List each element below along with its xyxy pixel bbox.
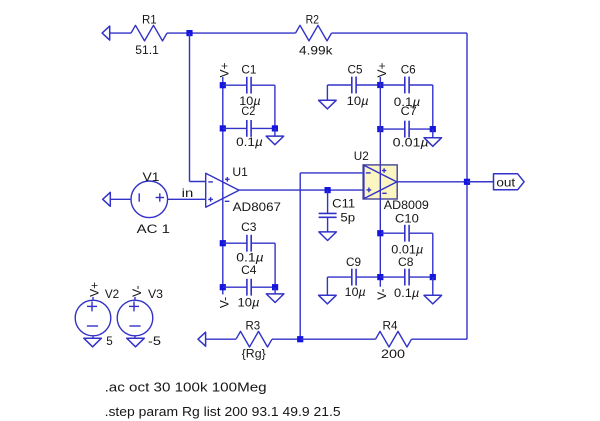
junction C2 left (220, 125, 226, 131)
svg-text:in: in (182, 186, 194, 200)
svg-text:C6: C6 (401, 63, 416, 77)
wire R4 right lead (412, 338, 468, 340)
svg-text:C8: C8 (398, 255, 414, 269)
flag V- above V3 (130, 286, 144, 297)
svg-text:C4: C4 (241, 263, 257, 277)
port flag at V1 left (103, 192, 111, 206)
capacitor C5 (327, 63, 380, 109)
capacitor C9 (327, 255, 380, 299)
junction C8 right (430, 274, 436, 280)
svg-text:C2: C2 (241, 104, 255, 118)
svg-text:R4: R4 (383, 318, 398, 332)
wire V1 to U1 + input (168, 198, 206, 200)
wire C6 right down (432, 85, 434, 129)
svg-text:V-: V- (130, 286, 144, 297)
wire U1 V- rail (bottom) (222, 190, 224, 294)
svg-text:R2: R2 (306, 12, 320, 26)
svg-text:V-: V- (218, 297, 232, 308)
op-amp U1 AD8067 (206, 165, 282, 214)
junction C4 right (272, 284, 278, 290)
svg-text:U2: U2 (354, 149, 369, 163)
svg-text:200: 200 (381, 347, 405, 361)
ground below V3 (127, 338, 145, 347)
voltage source V3 (117, 287, 163, 348)
flag V- below V- rail (375, 289, 389, 300)
wire U2 - input left (300, 172, 363, 174)
svg-text:5: 5 (106, 334, 113, 348)
net label in (182, 186, 194, 200)
svg-text:V2: V2 (105, 287, 120, 301)
svg-text:10µ: 10µ (238, 295, 260, 309)
capacitor C6 (380, 63, 433, 109)
directive .ac (105, 380, 267, 395)
ground below C5 (319, 100, 337, 109)
svg-text:V+: V+ (88, 282, 102, 297)
wire port to V1 (110, 198, 131, 200)
resistor R4 (376, 318, 412, 361)
svg-text:R1: R1 (142, 12, 157, 26)
wire node to R4 (300, 338, 375, 340)
wire to out port (467, 181, 494, 183)
voltage source V1 (131, 170, 170, 236)
wire C9 left down (326, 277, 328, 295)
wire V2 flag stub (92, 297, 94, 300)
capacitor C2 (223, 104, 275, 149)
wire C1 right down (274, 85, 276, 128)
junction C8 left (V- rail) (377, 274, 383, 280)
wire R3 to node (272, 338, 300, 340)
junction C1 left (220, 82, 226, 88)
svg-text:.step param Rg list 200 93.1 4: .step param Rg list 200 93.1 49.9 21.5 (105, 404, 341, 419)
wire right vertical (out net) (466, 33, 468, 339)
svg-text:AD8067: AD8067 (233, 200, 282, 214)
svg-text:U1: U1 (232, 165, 248, 179)
svg-text:.ac oct 30 100k 100Meg: .ac oct 30 100k 100Meg (105, 380, 267, 395)
wire to ground C4 (274, 287, 276, 294)
svg-text:C11: C11 (332, 197, 355, 211)
svg-text:C10: C10 (395, 212, 419, 226)
wire R2 to top-right corner (332, 32, 468, 34)
flag V+ above C5/C6 (375, 62, 389, 77)
voltage source V2 (75, 287, 119, 348)
ground below C7 (424, 138, 442, 147)
directive .step (105, 404, 341, 419)
capacitor C11 (319, 190, 356, 232)
junction C7 right (430, 126, 436, 132)
junction C7 left (377, 126, 383, 132)
svg-text:AD8009: AD8009 (384, 198, 429, 212)
svg-text:V3: V3 (148, 287, 163, 301)
wire U2 V+ rail (379, 77, 381, 165)
flag V- below C4 (218, 297, 232, 308)
port flag out (494, 174, 525, 190)
capacitor C4 (223, 263, 275, 309)
svg-text:out: out (496, 176, 516, 190)
svg-text:V1: V1 (143, 170, 160, 184)
svg-text:0.1µ: 0.1µ (394, 286, 419, 300)
svg-text:C5: C5 (348, 63, 363, 77)
wire to U1 inverting input (190, 181, 206, 183)
capacitor C8 (380, 255, 433, 300)
wire C3 right down (274, 243, 276, 287)
ground below C4 (266, 294, 284, 303)
junction out node (464, 179, 470, 185)
svg-text:4.99k: 4.99k (299, 43, 334, 57)
svg-text:C7: C7 (401, 104, 417, 118)
svg-text:C3: C3 (241, 220, 257, 234)
wire to ground C2 (274, 128, 276, 136)
junction R3/R4 feedback node (297, 336, 303, 342)
wire U2 output (397, 181, 493, 183)
wire feedback vertical (299, 173, 301, 339)
svg-text:-5: -5 (148, 334, 161, 348)
junction C3 left (220, 240, 226, 246)
wire C5 left down (326, 85, 328, 100)
svg-text:10µ: 10µ (347, 94, 369, 108)
junction C5/C6 (V+ rail) (377, 82, 383, 88)
svg-text:AC 1: AC 1 (137, 222, 171, 236)
svg-text:51.1: 51.1 (135, 43, 159, 57)
svg-text:5p: 5p (340, 211, 355, 225)
junction C2 right (272, 125, 278, 131)
wire U2 V- rail (379, 199, 381, 287)
svg-text:{Rg}: {Rg} (242, 347, 266, 361)
junction C10 left (377, 230, 383, 236)
capacitor C3 (223, 220, 275, 265)
svg-text:C1: C1 (241, 63, 256, 77)
capacitor C7 (380, 104, 433, 149)
port flag at R1 left (102, 26, 110, 40)
svg-text:C9: C9 (346, 255, 361, 269)
wire R1 to node N1 (167, 32, 296, 34)
resistor R3 (236, 318, 272, 360)
junction C4 left (220, 284, 226, 290)
wire U1 output to U2 + (239, 189, 363, 191)
capacitor C1 (223, 63, 275, 108)
flag V+ above V2 (88, 282, 102, 297)
wire to ground C7 (432, 129, 434, 138)
svg-text:0.1µ: 0.1µ (236, 135, 263, 149)
svg-text:10µ: 10µ (345, 285, 366, 299)
port flag at R3 left (198, 332, 206, 346)
node N1 junction (R1/R2/U1-) (186, 30, 192, 36)
wire V2 to ground (92, 336, 94, 338)
wire V3 to ground (134, 336, 136, 338)
ground below C11 (319, 232, 337, 241)
ground below V2 (84, 338, 102, 347)
wire R3 left lead (206, 338, 236, 340)
ground below C8 (424, 295, 442, 304)
ground below C9 (319, 295, 337, 304)
svg-text:R3: R3 (246, 318, 261, 332)
op-amp U2 AD8009 (354, 149, 429, 212)
wire node N1 down (189, 33, 191, 181)
wire R1 left lead (110, 32, 131, 34)
capacitor C10 (380, 212, 433, 257)
junction C11 top (325, 187, 331, 193)
ground below C2 (266, 136, 284, 145)
resistor R2 (296, 12, 334, 57)
svg-text:V-: V- (375, 289, 389, 300)
svg-text:V+: V+ (218, 62, 232, 77)
resistor R1 (131, 12, 167, 56)
svg-text:V+: V+ (375, 62, 389, 77)
wire U1 V+ rail (top) (222, 77, 224, 190)
wire V3 flag stub (134, 297, 136, 300)
flag V+ above C1 (218, 62, 232, 77)
wire C10 right down (432, 233, 434, 277)
wire to ground C8 (432, 277, 434, 295)
